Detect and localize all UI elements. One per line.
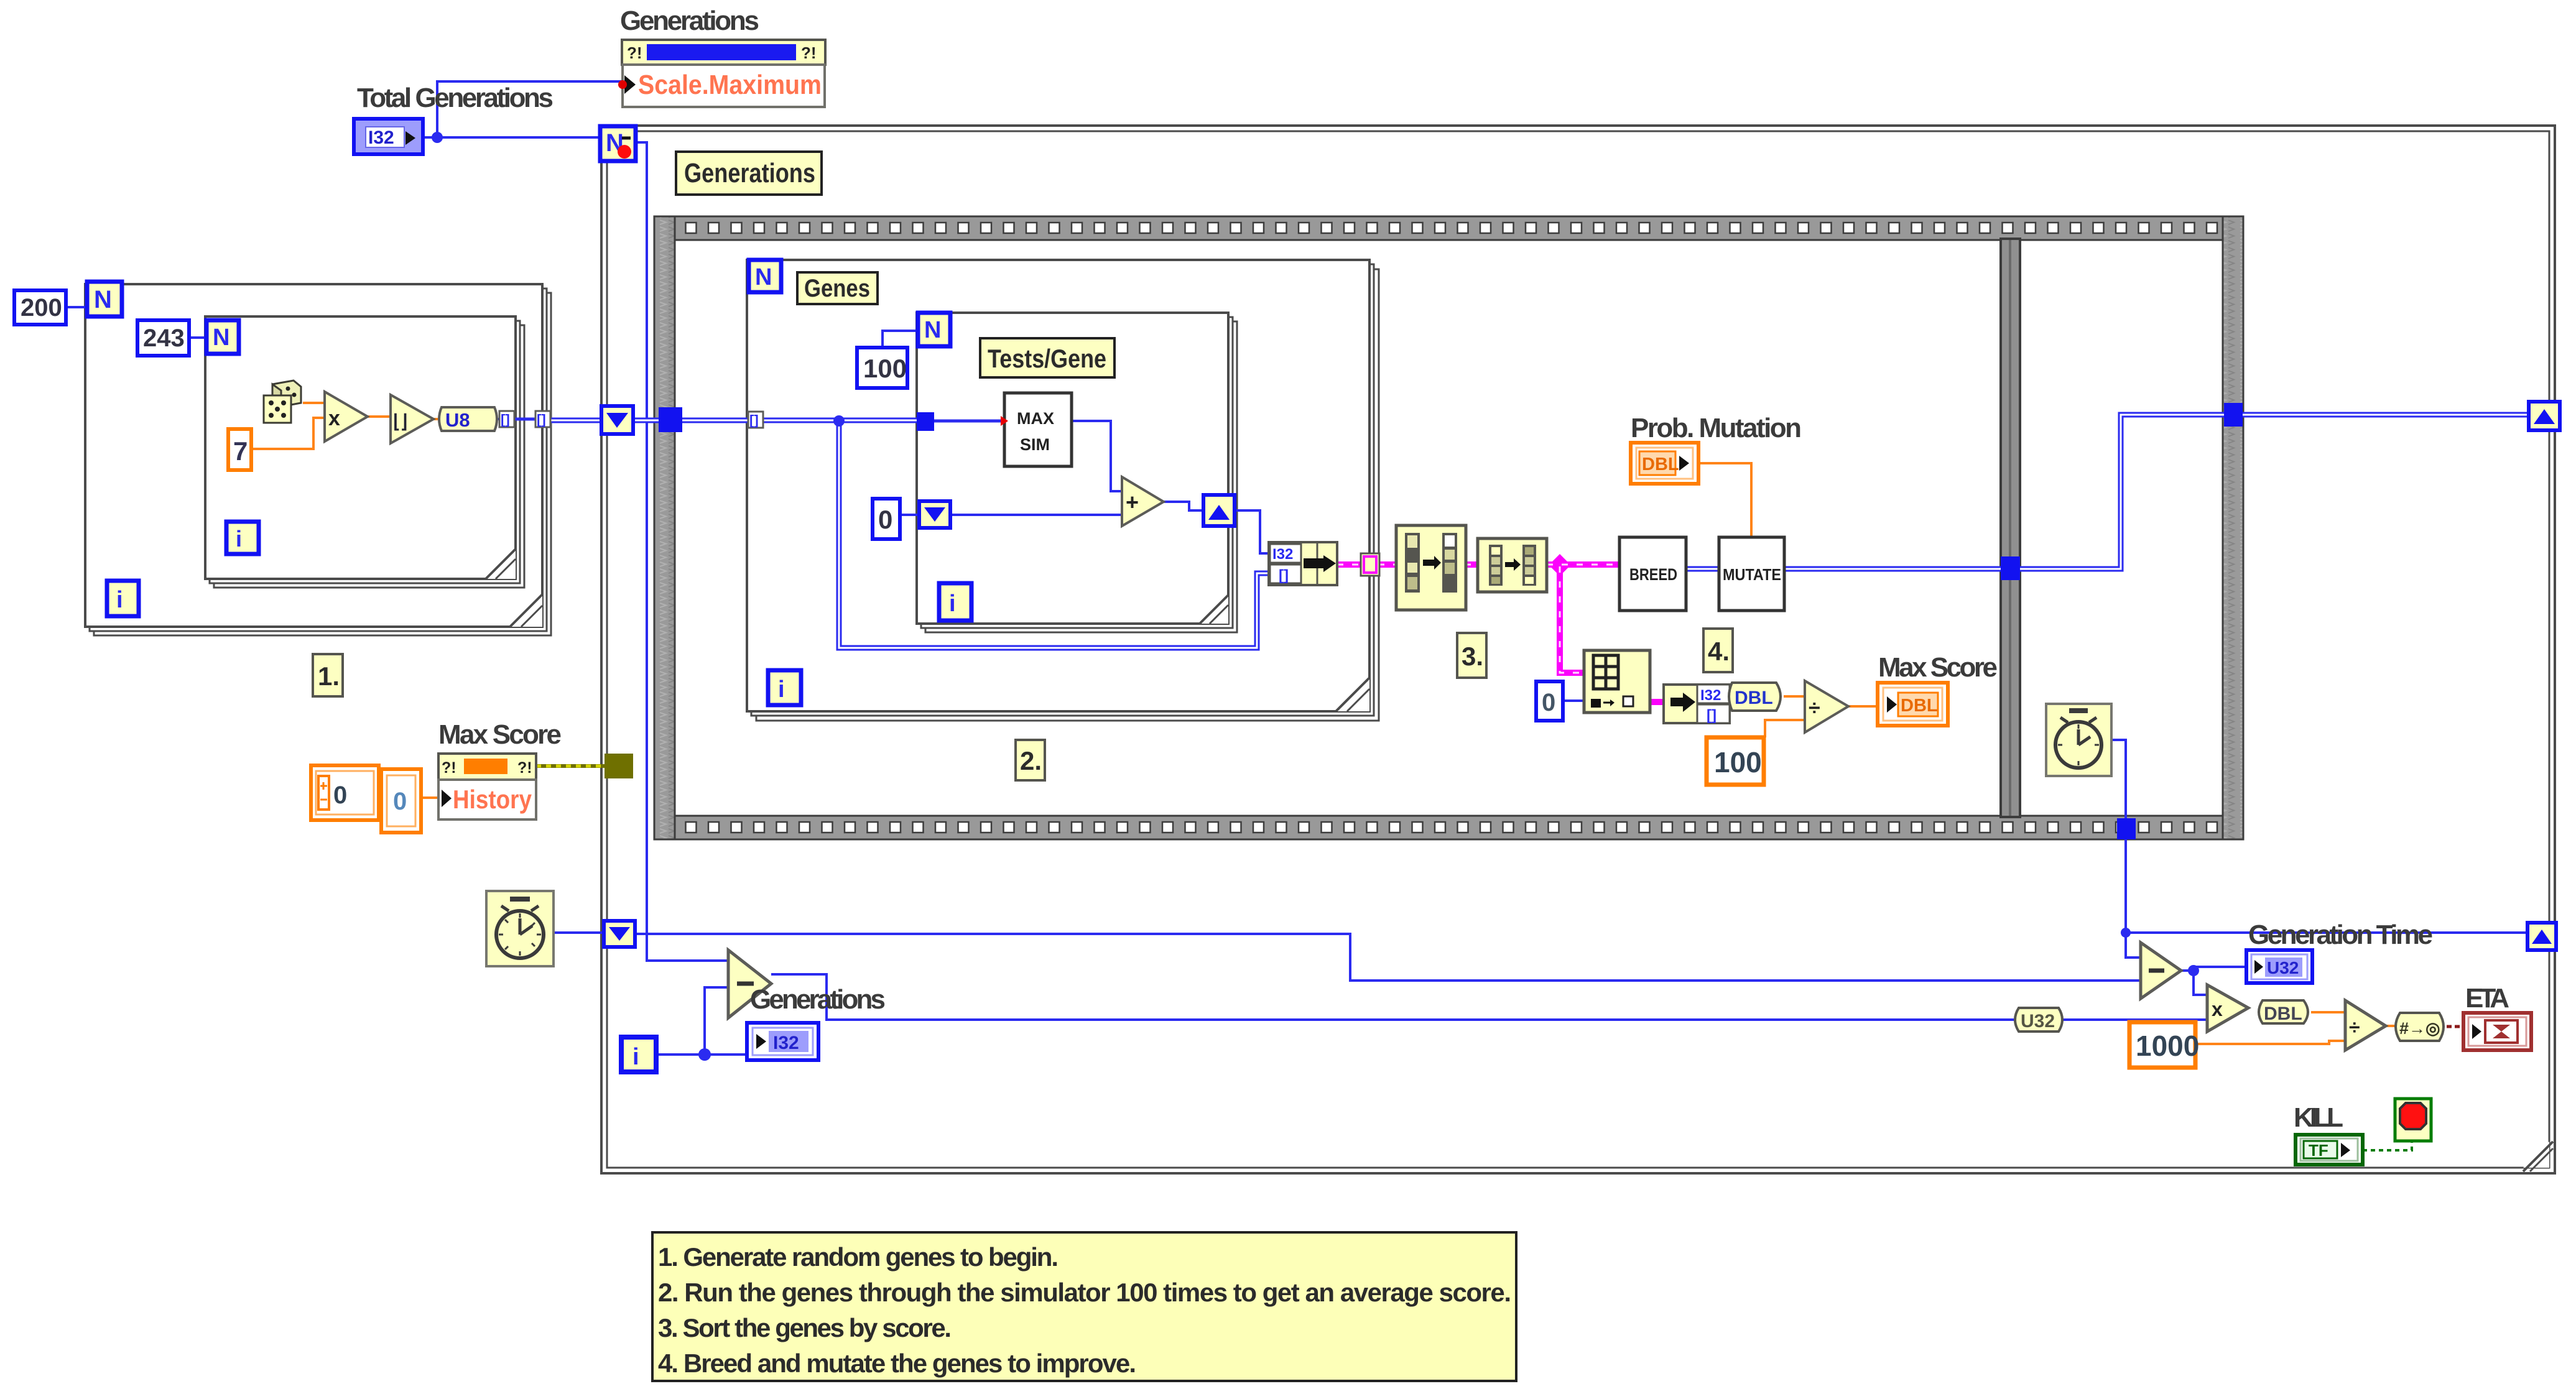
- svg-text:BREED: BREED: [1629, 565, 1677, 584]
- svg-text:[]: []: [501, 412, 510, 427]
- svg-text:0: 0: [878, 505, 892, 534]
- svg-text:[]: []: [749, 412, 759, 428]
- svg-text:÷: ÷: [1809, 696, 1820, 720]
- svg-text:?!: ?!: [517, 759, 532, 777]
- svg-text:100: 100: [1714, 746, 1762, 778]
- svg-text:N: N: [924, 317, 941, 343]
- svg-text:3. Sort the genes by score.: 3. Sort the genes by score.: [658, 1313, 952, 1342]
- svg-text:i: i: [632, 1044, 639, 1070]
- svg-text:1.: 1.: [318, 662, 340, 691]
- svg-text:i: i: [236, 526, 242, 552]
- svg-text:x: x: [2212, 998, 2223, 1020]
- svg-text:Prob. Mutation: Prob. Mutation: [1631, 413, 1802, 443]
- svg-text:DBL: DBL: [1642, 455, 1679, 474]
- svg-text:SIM: SIM: [1020, 435, 1050, 454]
- svg-text:TF: TF: [2309, 1141, 2328, 1160]
- svg-text:?!: ?!: [442, 759, 456, 777]
- svg-text:0: 0: [333, 782, 347, 809]
- svg-text:3.: 3.: [1462, 642, 1483, 671]
- svg-text:I32: I32: [773, 1033, 799, 1053]
- svg-text:x: x: [328, 407, 340, 430]
- svg-text:Scale.Maximum: Scale.Maximum: [638, 70, 822, 100]
- svg-text:1000: 1000: [2136, 1030, 2199, 1062]
- svg-text:[]: []: [1279, 567, 1289, 584]
- svg-text:ETA: ETA: [2465, 983, 2509, 1013]
- svg-text:Generations: Generations: [750, 984, 886, 1015]
- svg-text:Genes: Genes: [804, 275, 870, 302]
- svg-text:i: i: [949, 591, 956, 617]
- svg-text:4.: 4.: [1708, 637, 1730, 666]
- svg-text:U32: U32: [2267, 958, 2299, 977]
- svg-text:÷: ÷: [2349, 1016, 2360, 1038]
- svg-text:+: +: [1126, 489, 1139, 515]
- svg-text:Max Score: Max Score: [1878, 652, 1998, 683]
- svg-text:100: 100: [863, 354, 907, 383]
- svg-text:I32: I32: [368, 127, 394, 148]
- svg-text:[]: []: [537, 412, 546, 427]
- svg-text:?!: ?!: [627, 44, 642, 62]
- svg-text:Max Score: Max Score: [438, 719, 562, 750]
- svg-text:243: 243: [143, 325, 185, 352]
- svg-text:DBL: DBL: [1735, 688, 1773, 708]
- svg-text:2.: 2.: [1020, 746, 1042, 775]
- svg-text:[]: []: [1707, 707, 1717, 724]
- svg-text:Generations: Generations: [684, 158, 815, 188]
- svg-text:N: N: [755, 264, 772, 290]
- svg-text:DBL: DBL: [2264, 1004, 2302, 1024]
- svg-text:I32: I32: [1272, 546, 1293, 563]
- svg-text:Generation Time: Generation Time: [2248, 920, 2433, 950]
- svg-text:7: 7: [233, 436, 248, 466]
- svg-text:MUTATE: MUTATE: [1723, 565, 1781, 584]
- svg-text:U8: U8: [445, 409, 470, 431]
- svg-text:MAX: MAX: [1017, 409, 1054, 428]
- svg-text:History: History: [453, 785, 532, 814]
- svg-text:Generations: Generations: [620, 6, 759, 36]
- svg-text:U32: U32: [2021, 1011, 2055, 1032]
- svg-text:200: 200: [21, 294, 62, 321]
- svg-text:⌊⌋: ⌊⌋: [393, 412, 407, 432]
- svg-text:N: N: [94, 286, 112, 313]
- svg-text:1. Generate random genes to be: 1. Generate random genes to begin.: [658, 1242, 1059, 1272]
- svg-text:N: N: [213, 325, 229, 351]
- svg-text:i: i: [778, 676, 785, 703]
- svg-text:DBL: DBL: [1901, 696, 1938, 716]
- svg-text:i: i: [116, 587, 123, 613]
- svg-text:Tests/Gene: Tests/Gene: [988, 344, 1106, 373]
- svg-text:0: 0: [393, 788, 407, 815]
- svg-text:?!: ?!: [801, 44, 817, 62]
- svg-text:0: 0: [1542, 689, 1555, 716]
- svg-text:KILL: KILL: [2294, 1102, 2343, 1133]
- svg-text:I32: I32: [1700, 687, 1721, 704]
- svg-text:Total Generations: Total Generations: [357, 83, 554, 113]
- svg-text:4. Breed and mutate the genes: 4. Breed and mutate the genes to improve…: [658, 1349, 1136, 1378]
- svg-text:2. Run the genes through the s: 2. Run the genes through the simulator 1…: [658, 1278, 1511, 1307]
- svg-text:#→◎: #→◎: [2399, 1019, 2440, 1038]
